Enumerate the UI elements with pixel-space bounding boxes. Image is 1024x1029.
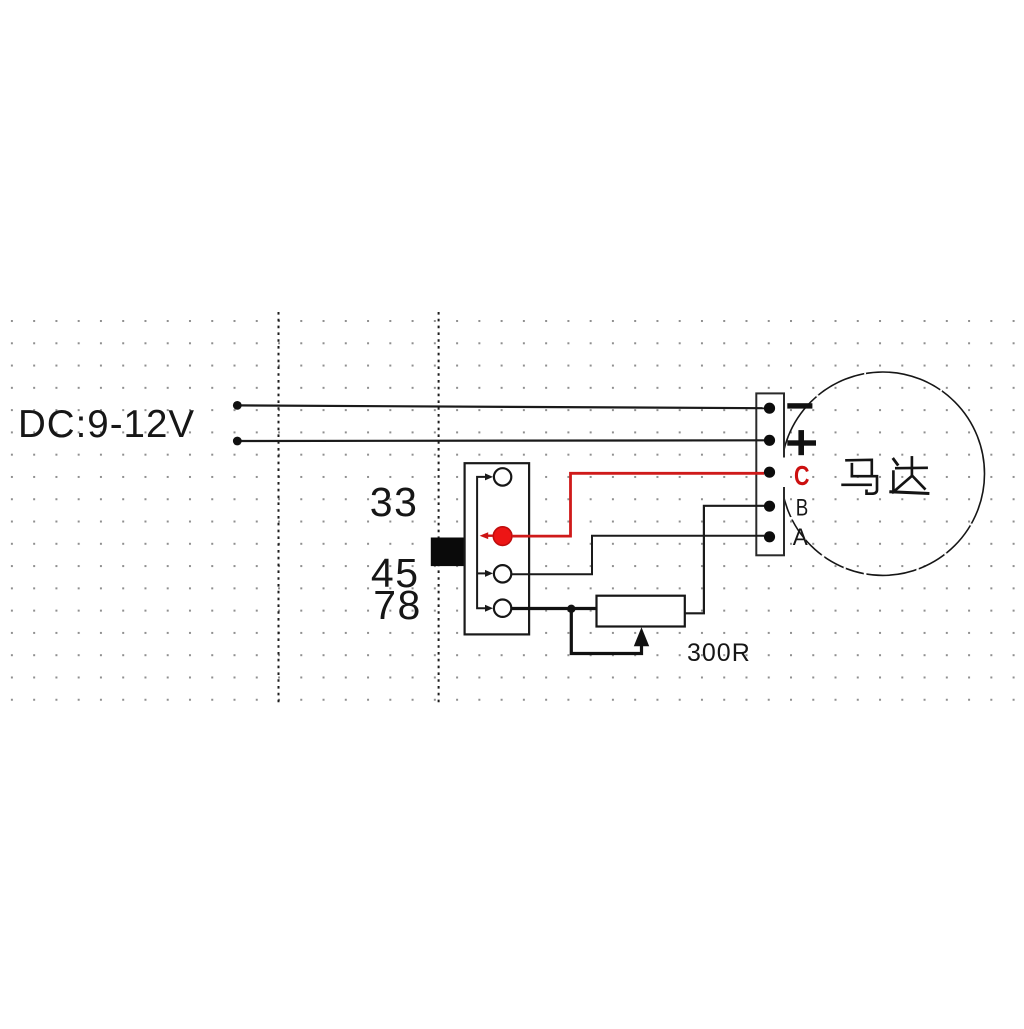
arrow to position 4: [485, 605, 493, 612]
switch contact position 3: [494, 565, 511, 582]
wire: contact 4 to resistor: [511, 607, 596, 610]
wire supply plus: [237, 439, 764, 442]
pin minus: [764, 403, 775, 414]
达 stroke: walk radical vertical: [892, 472, 895, 490]
pin A: [764, 531, 775, 542]
arrow to position 3: [477, 572, 485, 574]
达 stroke: left falling: [893, 476, 912, 492]
pin C: [764, 467, 775, 478]
connector block: [756, 393, 784, 555]
马 stroke: top bar + fold: [847, 460, 872, 476]
达 stroke: big vertical: [911, 457, 914, 476]
达 stroke: bottom sweep: [891, 492, 928, 494]
switch contact position 1: [494, 468, 511, 485]
label minus: [787, 403, 812, 408]
resistor 300R body: [597, 596, 685, 627]
svg-text:A: A: [793, 524, 809, 551]
node supply minus left terminal: [233, 401, 242, 410]
svg-text:33: 33: [370, 479, 419, 525]
wire B: resistor to pin B: [685, 506, 764, 614]
white smudge gap on connector edge near C: [782, 458, 791, 488]
wire A: contact 3 to pin A: [511, 536, 764, 575]
svg-text:C: C: [794, 460, 810, 491]
马 stroke: middle bar + fold + hook: [852, 476, 877, 494]
label motor (Chinese 马达) drawn as strokes: [843, 457, 928, 493]
arrow to position 1: [485, 473, 493, 480]
red selector arrow: [487, 535, 493, 537]
label plus: [787, 440, 816, 445]
potentiometer wiper wire: [571, 609, 641, 654]
马 stroke: long bar: [843, 483, 871, 486]
pin B: [764, 501, 775, 512]
motor circle: [781, 372, 984, 575]
wiper arrowhead: [634, 627, 649, 646]
sketch gaps on motor circle: [783, 373, 972, 576]
node supply plus left terminal: [233, 437, 242, 446]
达 stroke: dot of walk radical: [894, 459, 898, 464]
switch active contact (red): [493, 527, 512, 546]
svg-text:DC:9-12V: DC:9-12V: [18, 403, 195, 446]
pin plus: [764, 435, 775, 446]
达 stroke: big horizontal: [896, 466, 926, 469]
svg-text:78: 78: [373, 582, 422, 628]
dashed reference line left: [278, 312, 280, 705]
wire supply minus: [237, 405, 764, 408]
junction node at wiper tap: [567, 605, 575, 613]
switch contact position 4: [494, 600, 511, 617]
马 stroke: left vertical: [851, 464, 854, 476]
switch common rail: [477, 477, 485, 608]
switch S1 body: [465, 463, 529, 634]
red wire C: switch to pin C: [512, 473, 764, 536]
switch S1 lever: [431, 538, 465, 567]
dashed reference line right: [438, 312, 440, 705]
svg-text:B: B: [796, 494, 809, 521]
svg-text:300R: 300R: [687, 639, 751, 667]
background dot grid: [6, 315, 1018, 707]
达 stroke: right falling: [913, 477, 925, 489]
